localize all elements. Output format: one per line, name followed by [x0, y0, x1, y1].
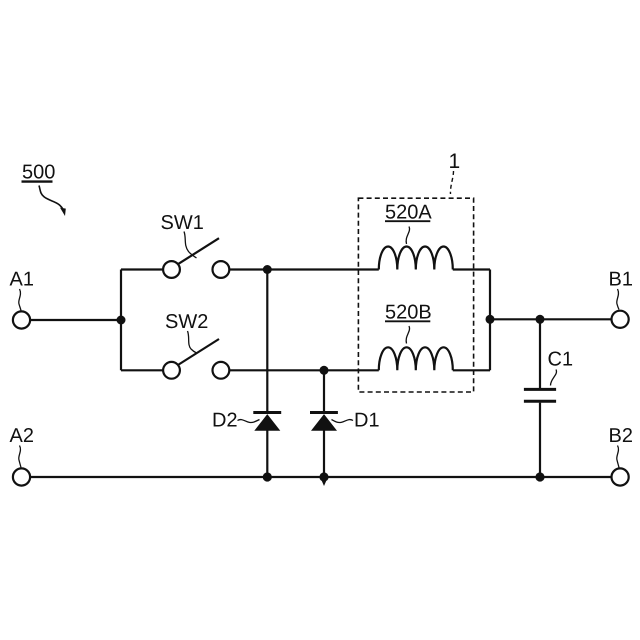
junction node D2 top	[263, 265, 272, 274]
wire to SW2	[121, 369, 163, 371]
terminal A2	[13, 468, 30, 485]
diode D2	[253, 413, 281, 478]
terminal A1	[13, 311, 30, 328]
wire A1 to split node	[30, 319, 121, 321]
switch SW2	[163, 339, 229, 379]
wire 520A to right vertical	[453, 268, 490, 270]
leader arrow for 500	[39, 186, 66, 217]
label B2	[610, 428, 632, 467]
junction node C1 top	[536, 315, 545, 324]
wire bottom rail	[30, 476, 611, 478]
label SW1	[161, 215, 202, 258]
wire to SW1	[121, 268, 163, 270]
terminal B2	[612, 468, 629, 485]
wire SW1 to inductor 520A	[229, 268, 378, 270]
junction node D2 bottom	[263, 472, 272, 481]
label D2	[214, 413, 260, 427]
capacitor C1	[524, 319, 556, 477]
junction node C1 bottom	[535, 472, 544, 481]
wire D1 anode riser	[323, 370, 325, 411]
label 520A	[385, 205, 432, 244]
wire D2 anode riser	[266, 270, 268, 412]
label 520B	[385, 305, 431, 344]
label A1	[10, 272, 33, 311]
inductor 520B	[379, 347, 453, 370]
label SW2	[166, 314, 207, 353]
wire left vertical branch	[120, 270, 122, 371]
switch SW1	[163, 238, 229, 278]
junction node output	[486, 315, 495, 324]
terminal B1	[612, 311, 629, 328]
label 1	[450, 154, 459, 194]
wire to B1	[490, 318, 612, 320]
label 500	[22, 164, 55, 181]
label A2	[10, 428, 33, 467]
label D1	[332, 413, 379, 427]
wire right vertical join	[489, 270, 491, 371]
label B1	[610, 272, 632, 310]
junction node D1 bottom	[319, 472, 328, 486]
dashed box 1	[358, 198, 473, 392]
diode D1	[310, 413, 338, 478]
inductor 520A	[379, 247, 453, 270]
wire 520B to right vertical	[453, 369, 490, 371]
label C1	[549, 352, 573, 386]
junction node D1 top	[320, 366, 329, 375]
wire SW2 to inductor 520B	[229, 369, 378, 371]
junction node split	[117, 316, 126, 325]
